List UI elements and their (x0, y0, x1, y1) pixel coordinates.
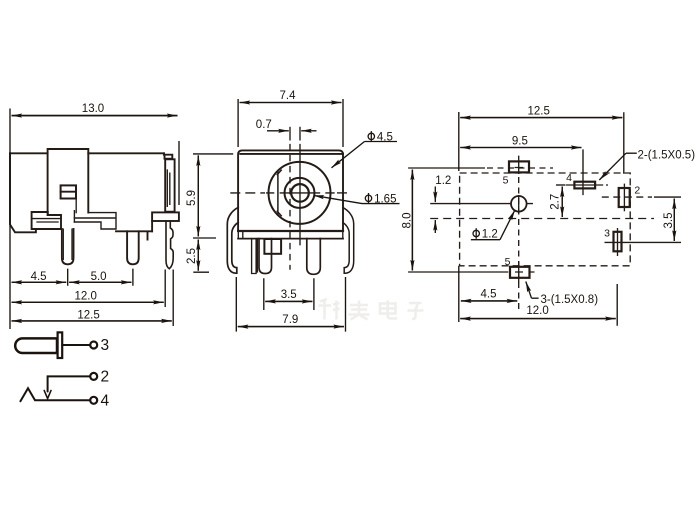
front view center lines (230, 127, 352, 270)
svg-text:2: 2 (634, 185, 640, 197)
pin 4 terminal circle (90, 397, 97, 404)
footprint dashed outline (460, 173, 631, 266)
flat tab pin (252, 239, 258, 274)
center column dashed line (518, 177, 520, 313)
dim 3.5 extensions (264, 278, 314, 310)
label φ4.5 symbol (368, 131, 374, 142)
svg-text:12.5: 12.5 (77, 309, 99, 321)
pad 2 row dashed (602, 196, 652, 198)
svg-text:7.9: 7.9 (282, 314, 298, 326)
dim 0.7 arrows (267, 130, 289, 132)
middle ring (285, 178, 315, 208)
dim 5.9 line (197, 155, 199, 236)
barrel crosshair horizontal ticks (267, 192, 334, 194)
dim 4.5 line (12, 281, 67, 283)
side view: middle bracket small vertical (73, 211, 75, 222)
svg-text:12.0: 12.0 (75, 291, 97, 303)
svg-text:2.5: 2.5 (186, 248, 198, 264)
svg-text:3.5: 3.5 (663, 213, 675, 229)
bottom pad row line (408, 271, 534, 273)
center pin hole φ1.65 (291, 184, 309, 202)
label φ1.65 symbol (365, 193, 371, 204)
vertical center line (299, 127, 301, 246)
svg-text:0.7: 0.7 (256, 119, 272, 131)
svg-text:4.5: 4.5 (481, 289, 497, 301)
barrel contact (bullet) (15, 338, 57, 353)
svg-text:3-(1.5X0.8): 3-(1.5X0.8) (541, 294, 599, 306)
side view: top-right step bump (164, 153, 172, 158)
side view: right flange tab (152, 212, 179, 221)
svg-text:5: 5 (505, 256, 511, 268)
dim 12.0 extensions (459, 266, 617, 326)
side view: body top edges (10, 152, 164, 154)
svg-text:1.65: 1.65 (374, 193, 396, 205)
side view: moulding line below slot (75, 199, 77, 213)
svg-text:4: 4 (101, 393, 110, 410)
side view: flange left edge to body bottom (151, 221, 153, 231)
svg-text:12.0: 12.0 (526, 305, 548, 317)
dim 9.5 line (460, 147, 581, 149)
dim 12.5 extensions (459, 112, 624, 174)
leader 3-(1.5X0.8) (532, 297, 539, 299)
side view: body bottom right segment (116, 231, 152, 239)
pad 5 bottom crosshair (515, 262, 523, 283)
pad 4 (574, 182, 595, 189)
dim 7.9 line (238, 326, 344, 328)
side view: pin 1 (U shape) (62, 229, 74, 264)
side view: left edge and chamfered bottom-left (10, 153, 36, 232)
dashed hidden line left of center (289, 127, 291, 141)
svg-text:4.5: 4.5 (31, 271, 47, 283)
wire pin 4 with switch zigzag (20, 388, 90, 401)
side view: middle bracket steps (74, 213, 116, 229)
dim 3.5 right extensions (654, 196, 681, 198)
dim 4.5 line (461, 300, 517, 302)
hole row line (430, 203, 533, 205)
keyway chord inside barrel (277, 170, 281, 216)
horizontal dashed center line (230, 192, 265, 194)
svg-text:8.0: 8.0 (402, 213, 414, 229)
dim 12.0 line (460, 318, 615, 320)
svg-text:4.5: 4.5 (377, 131, 393, 143)
front pin right (U) (307, 239, 321, 275)
dim 7.9 extensions (236, 277, 345, 332)
svg-text:5: 5 (503, 174, 509, 186)
dim 2.7 top extension (556, 184, 565, 186)
svg-text:3: 3 (101, 337, 110, 354)
dim 1.2 arrows (434, 187, 436, 203)
svg-text:7.4: 7.4 (280, 90, 297, 102)
side view: front band / top protrusion (48, 149, 89, 215)
svg-text:3.5: 3.5 (281, 289, 297, 301)
dim 12.5 line (460, 117, 622, 119)
flange end verticals (238, 231, 342, 239)
side view: right column (rear plate) (165, 159, 174, 211)
svg-text:2-(1.5X0.5): 2-(1.5X0.5) (638, 149, 696, 161)
pad 5 bottom (510, 267, 530, 278)
right bent leg (343, 208, 354, 274)
dim 5.9 / 2.5 extensions (193, 154, 233, 272)
svg-text:12.5: 12.5 (528, 106, 550, 118)
svg-text:1.2: 1.2 (435, 175, 451, 187)
svg-text:2.7: 2.7 (550, 194, 562, 210)
svg-text:13.0: 13.0 (82, 103, 104, 115)
left bent leg (227, 208, 238, 274)
pad 3 (614, 232, 622, 252)
side view: left tab inner lines (32, 219, 61, 222)
φ1.2 hole (511, 196, 527, 212)
svg-text:1.2: 1.2 (482, 229, 498, 241)
dim 5.0 line (69, 281, 131, 283)
front body outline with rounded top corners (238, 150, 343, 231)
side view: latch slot rectangle (61, 185, 76, 198)
svg-text:5.0: 5.0 (91, 271, 107, 283)
front flange bottom line (238, 238, 343, 240)
pad 5 top (509, 161, 529, 172)
front body second top line (240, 153, 343, 155)
pad 2 (619, 188, 630, 207)
side view: bent rear pin (166, 221, 173, 269)
pad 5 top crosshair (515, 156, 524, 174)
dim 2.7 line (561, 187, 563, 218)
dim 12.0 line (12, 301, 164, 303)
svg-text:9.5: 9.5 (512, 135, 528, 147)
dim 7.4 extensions (238, 99, 343, 147)
dim 8.0 line (411, 170, 413, 271)
dim 3.5 line (265, 300, 312, 302)
dim 9.5 extension (582, 149, 584, 175)
leader φ4.5 (365, 141, 398, 143)
tip contact bar (58, 332, 63, 358)
front pin left (U) (259, 239, 272, 274)
wire pin 2 with corner (48, 376, 91, 391)
hole crosshair (518, 195, 520, 213)
leader φ1.2 (471, 239, 500, 241)
svg-text:2: 2 (101, 369, 110, 386)
watermark 科美电子 (approximated strokes) (319, 299, 424, 320)
side view: left mounting tab (32, 212, 61, 229)
leader φ1.65 (362, 203, 400, 205)
dim 7.4 line (240, 102, 342, 104)
dim 4.5 / 5.0 ticks below pins (68, 269, 133, 286)
middle dashed row line (430, 218, 654, 220)
svg-text:5.9: 5.9 (186, 190, 198, 206)
side view: pin 2 (U shape) (127, 231, 139, 264)
side view: latch slot mid line (61, 191, 76, 193)
side view: pin 1 inner wall lines (63, 229, 72, 260)
label φ1.2 symbol (473, 228, 479, 239)
leader 2-(1.5X0.5) (626, 152, 637, 154)
pin 2 terminal circle (90, 373, 97, 380)
dim 13.0 extension lines (10, 109, 179, 330)
dim 12.5 extension (172, 270, 174, 327)
pad 3 crosshair (605, 228, 682, 256)
wire to pin 3 (62, 344, 90, 346)
switch contact box (264, 239, 281, 254)
front body bottom line (238, 230, 343, 232)
switch arrowhead (44, 391, 51, 399)
svg-text:3: 3 (604, 228, 610, 240)
dim 3.5 line (673, 199, 675, 241)
svg-text:4: 4 (566, 172, 572, 184)
top pad row line (408, 167, 485, 169)
pad 4 crosshair (566, 175, 609, 195)
dim 12.5 line (12, 320, 172, 322)
dim 2.5 line (197, 240, 199, 271)
dim 13.0 line (12, 115, 178, 117)
barrel circle φ4.5 (269, 162, 331, 224)
pin 3 terminal circle (90, 342, 97, 349)
side view: right column inner lines (167, 170, 170, 206)
pad 2 crosshair (623, 184, 625, 212)
dim 12.0 extension (164, 270, 166, 308)
